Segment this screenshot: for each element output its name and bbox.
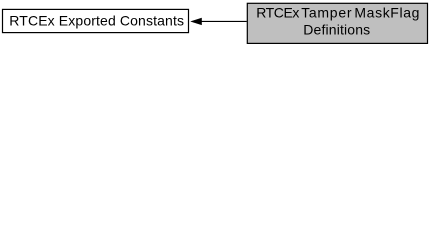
svg-text:Definitions: Definitions [303,21,370,37]
svg-text:RTCEx Exported Constants: RTCEx Exported Constants [9,12,184,28]
svg-text:Tamper: Tamper [301,4,352,20]
svg-text:RTCEx: RTCEx [256,4,299,20]
svg-text:MaskFlag: MaskFlag [354,4,419,20]
